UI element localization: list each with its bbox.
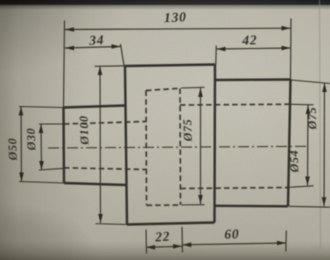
outline: middle cylinder top [125,65,215,67]
dim line 22 [146,246,182,247]
svg-text:Ø100: Ø100 [76,115,91,146]
hidden line bore step face [179,89,182,206]
wire: ext dia50 top [19,107,64,108]
dim line dia30 [40,124,43,170]
outline: right cylinder top [215,78,291,81]
hidden line dia54 bore bottom [181,188,289,189]
wire: bottom ext line at bore left face [145,230,148,254]
outline: left cylinder left face [62,107,65,184]
svg-text:130: 130 [164,9,187,25]
centerline axis [48,146,307,148]
hidden line dia30 bore top [64,122,146,125]
outline: middle cylinder right face [213,65,216,223]
wire: ext dia30 bottom [39,168,65,170]
svg-text:Ø30: Ø30 [24,127,39,151]
hidden line bore75 bottom [147,204,182,206]
dim line 42 [217,48,291,49]
wire: ext dia75r top [292,80,330,84]
dim line 34 [65,47,121,49]
svg-text:Ø50: Ø50 [5,137,20,161]
wire: ext dia100 top [95,65,126,68]
dim line dia50 [20,107,23,182]
svg-text:Ø75: Ø75 [180,118,195,142]
hidden line dia54 bore top [180,103,290,106]
outline: left cylinder top [64,106,126,108]
hidden line bore75 top [146,88,180,90]
svg-text:Ø54: Ø54 [287,149,302,173]
svg-text:42: 42 [241,32,258,48]
dim line 130 [65,28,291,29]
svg-text:34: 34 [88,32,105,48]
outline: left cylinder bottom [64,183,126,185]
faint page fold line right [320,0,321,250]
wire: ext dia30 top [39,123,64,125]
outline: right cylinder right face [288,80,291,207]
svg-text:Ø75: Ø75 [305,106,320,130]
wire: left extension line (top dims) [64,21,65,108]
wire: ext dia75m bottom [182,204,205,206]
dim line dia75 right [323,83,326,206]
hidden line dia30 bore bottom [64,168,146,170]
dim line dia100 [99,66,102,223]
svg-text:60: 60 [224,226,240,242]
wire: ext line 34 right [121,44,125,66]
wire: right extension line (top dims) [290,19,293,80]
dim line 60 [182,243,286,245]
svg-text:22: 22 [154,229,171,245]
wire: bottom ext line at bore step [181,227,184,253]
wire: bottom ext line at right face [285,231,288,252]
wire: ext dia75r bottom [289,205,330,208]
wire: ext dia100 bottom [96,223,128,226]
wire: ext dia50 bottom [19,182,65,184]
wire: ext dia75m top [181,86,205,89]
wire: ext dia54 top [291,103,314,106]
dim line dia75 middle bore [200,88,202,204]
hidden line bore75 left face [145,91,148,206]
dim line dia54 [307,105,310,186]
outline: right cylinder bottom [215,205,289,208]
wire: ext dia54 bottom [289,186,314,188]
wire: ext line 42 left [215,46,218,65]
outline: middle cylinder left face [125,66,127,225]
outline: middle cylinder bottom [127,223,215,225]
